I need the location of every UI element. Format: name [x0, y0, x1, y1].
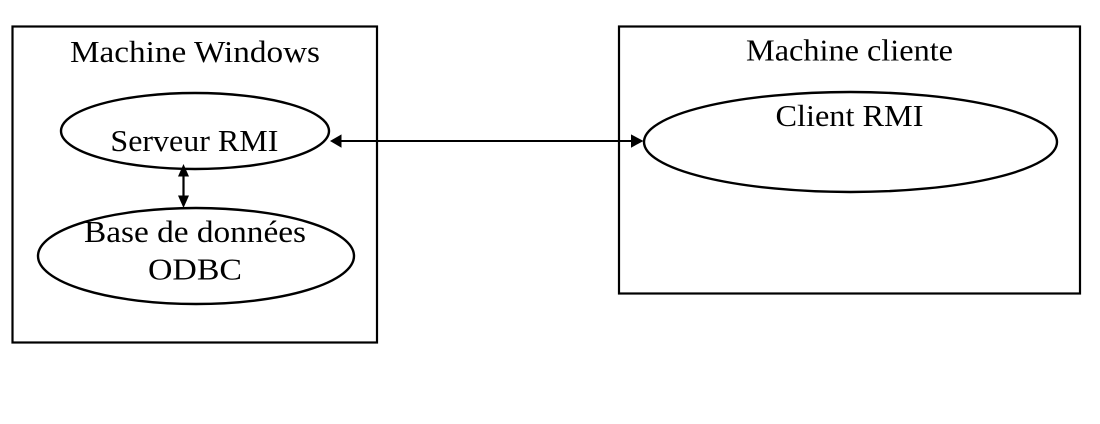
svg-text:Serveur RMI: Serveur RMI — [110, 123, 278, 158]
svg-text:ODBC: ODBC — [148, 251, 242, 286]
svg-text:Machine cliente: Machine cliente — [746, 33, 953, 68]
svg-text:Machine Windows: Machine Windows — [70, 34, 320, 69]
svg-text:Base de données: Base de données — [84, 214, 306, 249]
svg-text:Client RMI: Client RMI — [776, 98, 924, 133]
